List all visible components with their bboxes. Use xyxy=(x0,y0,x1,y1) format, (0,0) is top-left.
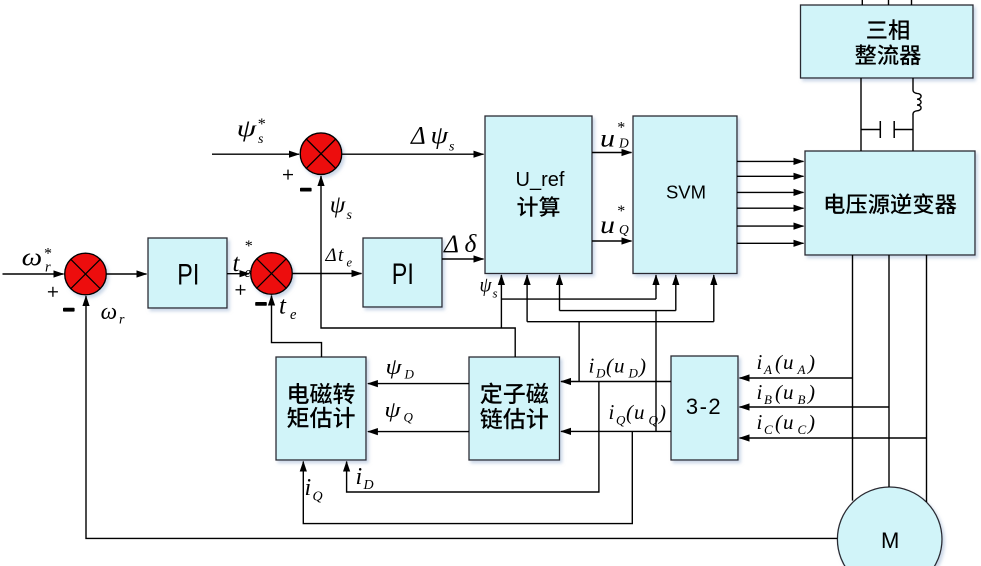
wire psi_s* input xyxy=(212,153,299,155)
wire J3 to U_ref delta_psi_s xyxy=(342,153,484,155)
svg-text:i: i xyxy=(757,350,763,374)
capacitor DC link xyxy=(880,121,894,138)
label psi_Q xyxy=(384,397,413,424)
wire i_Q branch to SVM xyxy=(675,275,677,311)
summing junction J1 speed error xyxy=(65,253,107,295)
wire SVM to inverter gate 3 xyxy=(737,191,804,193)
svg-text:t: t xyxy=(338,245,344,266)
svg-text:u: u xyxy=(614,354,625,378)
wire i_A sense to 3-2 xyxy=(740,377,853,379)
svg-text:e: e xyxy=(347,256,353,270)
svg-text:Δ: Δ xyxy=(443,229,459,258)
summing junction J2 torque error xyxy=(251,253,293,295)
svg-text:C: C xyxy=(798,422,807,437)
svg-text:Q: Q xyxy=(619,222,629,237)
label 计算 xyxy=(517,196,559,217)
wire inverter phase C to motor xyxy=(926,255,928,502)
block electromagnetic torque estimator 电磁转矩估计 xyxy=(276,357,366,460)
wire capacitor left lead xyxy=(861,129,880,131)
svg-text:e: e xyxy=(290,307,297,323)
label i_B(u_B) xyxy=(757,380,816,407)
block SVM xyxy=(633,116,737,274)
svg-text:): ) xyxy=(807,381,815,405)
svg-text:e: e xyxy=(245,265,252,281)
svg-text:Δ: Δ xyxy=(410,123,426,150)
block U_ref calculation xyxy=(485,116,592,274)
block voltage source inverter 电压源逆变器 xyxy=(805,151,975,255)
wire i_Q branch to U_ref xyxy=(559,275,561,311)
label omega_r* xyxy=(22,245,52,276)
svg-text:D: D xyxy=(363,478,374,493)
wire SVM to inverter gate 4 xyxy=(737,207,804,209)
svg-text:ψ: ψ xyxy=(330,193,347,219)
wire SVM to inverter gate 6 xyxy=(737,242,804,244)
sign minus J3 xyxy=(300,188,312,192)
svg-text:δ: δ xyxy=(465,229,478,258)
svg-text:U_ref: U_ref xyxy=(516,169,565,191)
svg-text:s: s xyxy=(258,132,264,147)
wire i_Q riser xyxy=(655,311,657,432)
label i_D xyxy=(356,464,374,493)
label 电压源逆变器 xyxy=(826,193,957,214)
label 链估计 xyxy=(480,408,548,429)
label i_C(u_C) xyxy=(757,410,816,437)
svg-text:): ) xyxy=(807,411,815,435)
svg-text:ω: ω xyxy=(22,245,43,272)
wire J1 to PI1 xyxy=(106,273,147,275)
svg-text:ω: ω xyxy=(101,299,118,324)
svg-text:3-2: 3-2 xyxy=(686,394,722,419)
label t_e xyxy=(279,293,297,324)
svg-text:D: D xyxy=(595,366,606,381)
wire DC link right rail upper xyxy=(912,78,914,90)
svg-text:PI: PI xyxy=(177,258,199,291)
wire i_D branch to SVM xyxy=(713,275,715,322)
wire psi_Q flux to torque estimator xyxy=(368,431,469,433)
svg-text:Q: Q xyxy=(649,413,659,428)
svg-text:): ) xyxy=(807,351,815,375)
wire psi_s branch to SVM xyxy=(655,275,657,299)
wire i_D distribution line xyxy=(527,321,714,323)
sign plus J1 xyxy=(48,287,58,297)
wire i_D to torque estimator xyxy=(347,382,599,493)
wire omega_r feedback to J1 xyxy=(86,296,837,538)
svg-text:r: r xyxy=(45,260,51,276)
svg-text:i: i xyxy=(757,380,763,404)
wire i_B sense to 3-2 xyxy=(740,406,890,408)
wire inverter phase B to motor xyxy=(888,255,890,487)
label i_A(u_A) xyxy=(757,350,816,377)
svg-text:D: D xyxy=(628,366,639,381)
svg-text:ψ: ψ xyxy=(386,354,402,379)
block motor M xyxy=(837,487,942,566)
wire i_D branch to U_ref xyxy=(526,275,528,322)
wire SVM to inverter gate 2 xyxy=(737,175,804,177)
wire PI1 to J2 xyxy=(227,273,250,275)
block stator flux estimator 定子磁链估计 xyxy=(469,357,560,460)
svg-text:D: D xyxy=(404,367,415,382)
svg-text:Δ: Δ xyxy=(325,245,337,266)
svg-text:s: s xyxy=(493,286,498,301)
label psi_s mid xyxy=(330,193,353,224)
svg-text:i: i xyxy=(356,464,363,490)
sign minus J2 xyxy=(255,302,267,306)
wire DC link left rail xyxy=(860,78,862,151)
label u_Q* xyxy=(600,203,629,239)
label i_Q xyxy=(305,475,323,505)
summing junction J3 flux error xyxy=(300,133,342,175)
wire J2 to PI2 delta_te xyxy=(292,273,362,275)
svg-text:i: i xyxy=(589,354,595,378)
label i_Q(u_Q) xyxy=(609,400,667,428)
svg-text:t: t xyxy=(279,293,287,320)
svg-text:): ) xyxy=(658,401,666,425)
block 3-2 transform xyxy=(671,356,738,460)
wire i_Q(u_Q) 3-2 to flux estimator xyxy=(561,430,671,432)
label i_D(u_D) xyxy=(589,354,647,381)
svg-text:SVM: SVM xyxy=(666,182,706,203)
label omega_r xyxy=(101,299,125,328)
wire psi_s distribution line xyxy=(501,298,656,300)
svg-text:s: s xyxy=(347,208,353,223)
wire t_e feedback to J2 xyxy=(272,296,322,358)
wire i_Q to torque estimator xyxy=(303,431,632,523)
block PI torque controller xyxy=(363,238,442,307)
label u_D* xyxy=(600,119,629,152)
label psi_D xyxy=(386,354,415,382)
wire omega_r* input xyxy=(3,273,64,275)
sign plus J2 xyxy=(236,285,246,295)
wire DC link right rail lower xyxy=(912,114,914,151)
wire psi_D flux to torque estimator xyxy=(368,383,469,385)
svg-text:D: D xyxy=(618,136,629,151)
label delta_psi_s xyxy=(410,123,455,155)
wire rectifier AC input stubs xyxy=(862,0,911,5)
svg-text:u: u xyxy=(783,350,794,374)
block three-phase rectifier 三相整流器 xyxy=(801,5,974,78)
sign plus J3 xyxy=(283,170,293,180)
label 定子磁 xyxy=(481,382,549,404)
svg-text:u: u xyxy=(600,212,615,239)
svg-text:u: u xyxy=(783,410,794,434)
svg-text:A: A xyxy=(797,362,806,377)
label 整流器 xyxy=(855,44,921,65)
wire u_D* U_ref to SVM xyxy=(592,152,632,154)
svg-text:C: C xyxy=(764,422,773,437)
svg-text:*: * xyxy=(244,238,252,255)
svg-text:u: u xyxy=(783,380,794,404)
wire capacitor right lead xyxy=(894,129,913,131)
svg-text:): ) xyxy=(638,354,646,378)
svg-text:u: u xyxy=(634,400,645,424)
svg-text:i: i xyxy=(305,475,312,501)
svg-text:Q: Q xyxy=(404,410,414,425)
svg-text:ψ: ψ xyxy=(431,123,449,150)
svg-text:t: t xyxy=(233,250,241,277)
label psi_s* xyxy=(237,116,265,147)
svg-text:r: r xyxy=(119,313,125,328)
svg-text:u: u xyxy=(600,126,615,153)
svg-text:A: A xyxy=(763,362,772,377)
svg-text:M: M xyxy=(881,528,899,553)
label psi_s lower xyxy=(480,273,498,301)
wire u_Q* U_ref to SVM xyxy=(592,240,632,242)
label 电磁转 xyxy=(289,383,354,404)
wire PI2 to U_ref delta_delta xyxy=(442,258,484,260)
svg-text:PI: PI xyxy=(392,258,414,291)
svg-text:*: * xyxy=(617,119,625,136)
svg-text:i: i xyxy=(609,400,615,424)
svg-text:ψ: ψ xyxy=(384,397,400,422)
sign minus J1 xyxy=(63,308,75,312)
inductor DC link xyxy=(913,90,921,114)
svg-text:*: * xyxy=(617,203,625,220)
wire psi_s branch to U_ref xyxy=(500,275,502,328)
svg-text:B: B xyxy=(798,392,806,407)
wire i_D(u_D) 3-2 to flux estimator xyxy=(561,381,671,383)
wire SVM to inverter gate 5 xyxy=(737,225,804,227)
svg-text:Q: Q xyxy=(313,490,323,505)
svg-text:*: * xyxy=(257,116,265,133)
label t_e* xyxy=(233,238,253,281)
wire SVM to inverter gate 1 xyxy=(737,160,804,162)
label 三相 xyxy=(867,19,909,40)
block PI speed controller xyxy=(148,238,227,308)
wire i_Q distribution line xyxy=(560,310,676,312)
wire psi_s feedback to J3 xyxy=(321,176,515,357)
wire inverter phase A to motor xyxy=(852,255,854,501)
svg-text:Q: Q xyxy=(616,413,626,428)
label delta_t_e xyxy=(325,245,353,270)
svg-text:i: i xyxy=(757,410,763,434)
wire i_C sense to 3-2 xyxy=(740,437,927,439)
wire i_D riser xyxy=(578,322,580,382)
svg-text:B: B xyxy=(764,392,772,407)
svg-text:s: s xyxy=(449,140,455,155)
label delta_delta xyxy=(443,229,478,258)
svg-text:ψ: ψ xyxy=(480,273,493,297)
svg-text:ψ: ψ xyxy=(237,117,258,143)
label 矩估计 xyxy=(287,407,354,428)
